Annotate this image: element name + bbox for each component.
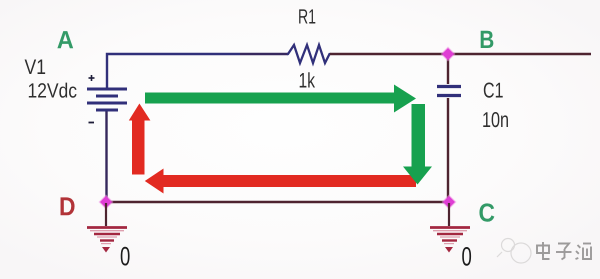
wire: bottom from node D to node C	[106, 201, 449, 203]
node D junction dot	[99, 195, 114, 210]
C1 value label 10n	[483, 112, 508, 127]
capacitor C1 plates	[437, 87, 461, 96]
wire: top middle segment	[240, 53, 288, 55]
V1 value label 12Vdc	[29, 83, 77, 98]
R1 value label 1k	[300, 72, 315, 87]
wire: right vertical from capacitor to node C	[447, 98, 449, 202]
red arrow vertical (left, pointing up)	[129, 104, 151, 175]
V1 reference label	[25, 60, 46, 74]
wire: right vertical from node B to capacitor	[447, 54, 449, 84]
watermark text zi	[556, 244, 572, 260]
red arrow horizontal (bottom, pointing left)	[145, 169, 416, 194]
watermark logo sketch	[497, 239, 531, 264]
node B label	[481, 31, 494, 48]
ground 0 label at D	[121, 247, 130, 266]
node D label	[61, 197, 75, 215]
ground 0 label at C	[462, 247, 471, 266]
green arrow horizontal (top, pointing right)	[145, 85, 416, 113]
watermark text hui	[576, 244, 592, 260]
ground at D	[87, 203, 127, 244]
battery minus sign	[89, 122, 95, 124]
battery plus sign	[89, 75, 95, 81]
wire: left vertical from battery bottom to node D	[105, 111, 107, 202]
green arrow vertical (right, pointing down)	[403, 104, 432, 185]
C1 reference label	[484, 82, 503, 97]
wire: top-left from battery up and right to resistor	[107, 54, 240, 88]
node C junction dot	[442, 195, 457, 210]
watermark text dian	[537, 242, 550, 259]
wire: top-right from resistor through node B to right edge	[330, 53, 591, 55]
node A label	[57, 31, 73, 48]
R1 reference label	[299, 9, 315, 23]
node B junction dot	[441, 47, 456, 62]
resistor R1	[287, 45, 331, 63]
battery V1 plates	[87, 89, 127, 110]
ground at C	[430, 203, 470, 244]
node C label	[479, 203, 494, 221]
